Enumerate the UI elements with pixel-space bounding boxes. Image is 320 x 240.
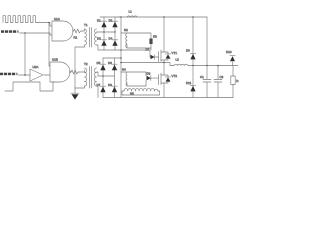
diode VD2 bbox=[112, 21, 118, 27]
mosfet VT2 bbox=[159, 73, 171, 85]
svg-text:D8: D8 bbox=[147, 72, 151, 76]
vertical bus bbox=[120, 17, 122, 98]
capacitor C1 branch bbox=[203, 66, 211, 98]
wire T1 primary return bbox=[75, 45, 85, 88]
wire T2 secondary bottom bbox=[97, 86, 99, 98]
svg-text:D4: D4 bbox=[109, 37, 113, 41]
svg-text:L2: L2 bbox=[176, 58, 180, 62]
diode VD10 output bbox=[230, 56, 235, 66]
signal2 waveform annotation bbox=[5, 82, 55, 91]
wire staircase to gate1 drive bbox=[142, 50, 151, 57]
wire R2 to T2 bbox=[80, 70, 85, 72]
wire signal1 to gate1 bbox=[20, 33, 53, 35]
diode VD1 bbox=[101, 21, 107, 27]
load resistor branch bbox=[231, 66, 235, 98]
diode VD7 bbox=[151, 55, 159, 60]
node carrier branch bbox=[48, 22, 50, 24]
wire bus to loop1 bbox=[121, 32, 127, 34]
svg-text:D10: D10 bbox=[226, 50, 232, 54]
bridge1 mid wire bbox=[104, 31, 115, 33]
svg-text:D2: D2 bbox=[109, 19, 113, 23]
node VD9 bottom bbox=[192, 65, 194, 67]
node signal1 branch bbox=[24, 32, 26, 34]
resistor R1 bbox=[74, 29, 82, 33]
bridge2 mid wire bbox=[103, 75, 115, 77]
svg-text:VT1: VT1 bbox=[172, 51, 178, 55]
svg-text:N4: N4 bbox=[122, 68, 126, 72]
bridge1 bottom wire bbox=[104, 49, 142, 51]
wire signal2 to inverter bbox=[19, 74, 31, 76]
svg-text:D9: D9 bbox=[186, 49, 190, 53]
wire loop2 to gate bbox=[151, 77, 159, 79]
svg-text:T1: T1 bbox=[84, 23, 88, 27]
svg-text:R3: R3 bbox=[153, 35, 157, 39]
inverter U2A bbox=[30, 69, 43, 81]
svg-text:C1: C1 bbox=[200, 75, 204, 79]
svg-text:U2A: U2A bbox=[33, 65, 39, 69]
freewheel diode VD11 lower bbox=[190, 66, 195, 98]
wire gate1 output bbox=[73, 30, 74, 32]
diode VD7b bbox=[100, 86, 106, 92]
wire carrier down to gate2 input bbox=[49, 23, 50, 67]
node corner bottom bbox=[206, 65, 208, 67]
mid rail right bbox=[188, 65, 238, 67]
node rail-bus bbox=[120, 16, 122, 18]
and-gate U1A bbox=[52, 21, 73, 41]
bottom rail bbox=[103, 97, 233, 99]
svg-text:C2: C2 bbox=[220, 75, 224, 79]
svg-text:R1: R1 bbox=[74, 36, 78, 40]
transformer T2 bbox=[85, 67, 97, 89]
svg-text:D5: D5 bbox=[97, 61, 101, 65]
svg-text:D1: D1 bbox=[97, 19, 101, 23]
resistor R4 in loop2 bbox=[147, 76, 151, 81]
svg-text:D11: D11 bbox=[186, 81, 192, 85]
bridge1 right leg bbox=[114, 17, 116, 50]
node mid-bus bbox=[120, 62, 122, 64]
node bridge2 mid bbox=[102, 75, 103, 76]
resistor R2 bbox=[71, 70, 79, 74]
svg-text:D7: D7 bbox=[97, 83, 101, 87]
and-gate U1B bbox=[50, 62, 70, 82]
node bridge1 mid left bbox=[103, 31, 104, 32]
gate loop2 rectangle bbox=[127, 72, 146, 86]
resistor R3 in loop1 bbox=[149, 39, 152, 45]
bridge1 left leg bbox=[103, 17, 105, 50]
node VT1 source bbox=[163, 62, 165, 64]
capacitor C2 branch bbox=[214, 66, 222, 98]
ground bbox=[71, 88, 79, 100]
output winding coil bbox=[122, 88, 160, 95]
diode VD4 bbox=[112, 40, 118, 46]
wire signal1 down to inverter bbox=[24, 33, 26, 75]
wire T2 secondary top to bridge2 mid bbox=[97, 72, 104, 76]
node bridge1 mid right bbox=[114, 31, 115, 32]
svg-text:VT2: VT2 bbox=[172, 74, 178, 78]
text drive-signal-1 bbox=[1, 30, 18, 33]
svg-text:T2: T2 bbox=[84, 62, 88, 66]
wire VT1 source to mid rail bbox=[163, 60, 165, 63]
svg-text:R: R bbox=[236, 79, 239, 83]
diode VD6 bbox=[112, 64, 118, 70]
gate loop1 winding bbox=[126, 33, 127, 48]
freewheel diode VD9 upper bbox=[190, 17, 195, 66]
bridge1 top rail bbox=[100, 16, 121, 18]
pulse train carrier waveform bbox=[3, 16, 38, 23]
node VD9 top bbox=[192, 16, 194, 18]
stub loop1 to bridge wire bbox=[150, 48, 152, 50]
node bridge2-bus bbox=[120, 57, 122, 59]
wire inverter output bbox=[44, 74, 50, 76]
svg-text:L1: L1 bbox=[129, 10, 133, 14]
node VT1 drain bbox=[163, 16, 165, 18]
wire top rail corner down bbox=[206, 17, 208, 66]
svg-text:U1A: U1A bbox=[54, 17, 60, 21]
wire gate2 output bbox=[70, 71, 72, 73]
svg-text:N2: N2 bbox=[124, 28, 128, 32]
bridge2 left leg bbox=[102, 58, 104, 98]
wire R1 to T1 bbox=[82, 29, 85, 31]
bridge2 top wire bbox=[103, 57, 121, 59]
transformer T1 bbox=[85, 28, 97, 48]
inductor L1 bbox=[127, 16, 137, 17]
top rail bbox=[118, 16, 207, 18]
wire VT2 source bbox=[163, 83, 165, 98]
bridge2 right leg bbox=[114, 58, 116, 98]
wire T1 secondary top to bridge mid bbox=[97, 31, 105, 33]
wire bridge outputs tie bbox=[120, 49, 122, 51]
node C2 top bbox=[217, 65, 219, 67]
wire VT2 drain bbox=[163, 63, 165, 76]
wire VT1 drain bbox=[163, 17, 165, 52]
svg-text:D8: D8 bbox=[108, 83, 112, 87]
wire T1 secondary bottom bbox=[97, 45, 105, 50]
mosfet VT1 bbox=[159, 50, 171, 62]
text drive-signal-2 bbox=[0, 73, 17, 76]
svg-text:U1B: U1B bbox=[52, 58, 58, 62]
inductor L2 bbox=[174, 64, 188, 65]
diode VD3 bbox=[101, 40, 107, 46]
svg-text:D3: D3 bbox=[97, 37, 101, 41]
diode VD8b bbox=[112, 86, 118, 92]
mid rail left bbox=[121, 63, 174, 66]
wire carrier to gate1 bbox=[38, 23, 52, 27]
gate loop1 rectangle bbox=[127, 33, 151, 48]
svg-text:D6: D6 bbox=[108, 61, 112, 65]
node gate2 output bbox=[69, 71, 70, 72]
wire T2 primary return bbox=[75, 86, 85, 88]
gate loop2 winding bbox=[126, 72, 127, 86]
diode VD5 bbox=[100, 64, 106, 70]
wire bus to loop2 bbox=[121, 71, 127, 73]
svg-text:N3: N3 bbox=[130, 92, 134, 96]
